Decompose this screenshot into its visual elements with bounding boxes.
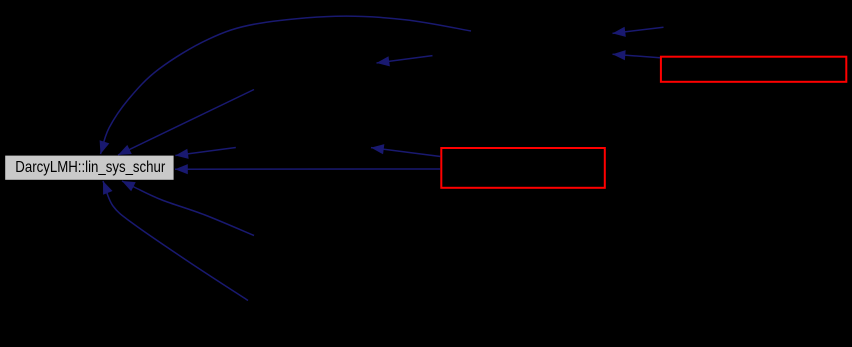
node DarcyLMH::lin_sys_schur (current node, gray) <box>5 156 173 180</box>
svg-text:DarcyLMH::lin_sys_schur: DarcyLMH::lin_sys_schur <box>15 159 166 176</box>
edge E3 short from hidden node into lin_sys_schur right upper <box>175 148 236 156</box>
edge E5 from hidden node X2 into hidden node X (upper middle) <box>377 56 433 63</box>
node red box 1 (top right, truncated) <box>661 57 846 82</box>
edge E7 top right into hidden node N_top <box>613 27 664 33</box>
edge E9 from lower hidden node into lin_sys_schur bottom <box>122 181 254 236</box>
edge E8 from red box 1 into hidden node X2 <box>613 54 661 58</box>
node red box 2 (middle, truncated) <box>441 148 605 188</box>
edge E1 big arc from top node into lin_sys_schur top <box>101 16 472 154</box>
edge E10 from bottom hidden node into lin_sys_schur bottom left <box>103 181 248 301</box>
edge E4 long horizontal from red box 2 into lin_sys_schur right lower <box>175 168 440 170</box>
edge E2 diagonal from middle node into lin_sys_schur top <box>118 90 254 156</box>
edge E6 from red box 2 into hidden node N_mid <box>371 148 441 157</box>
